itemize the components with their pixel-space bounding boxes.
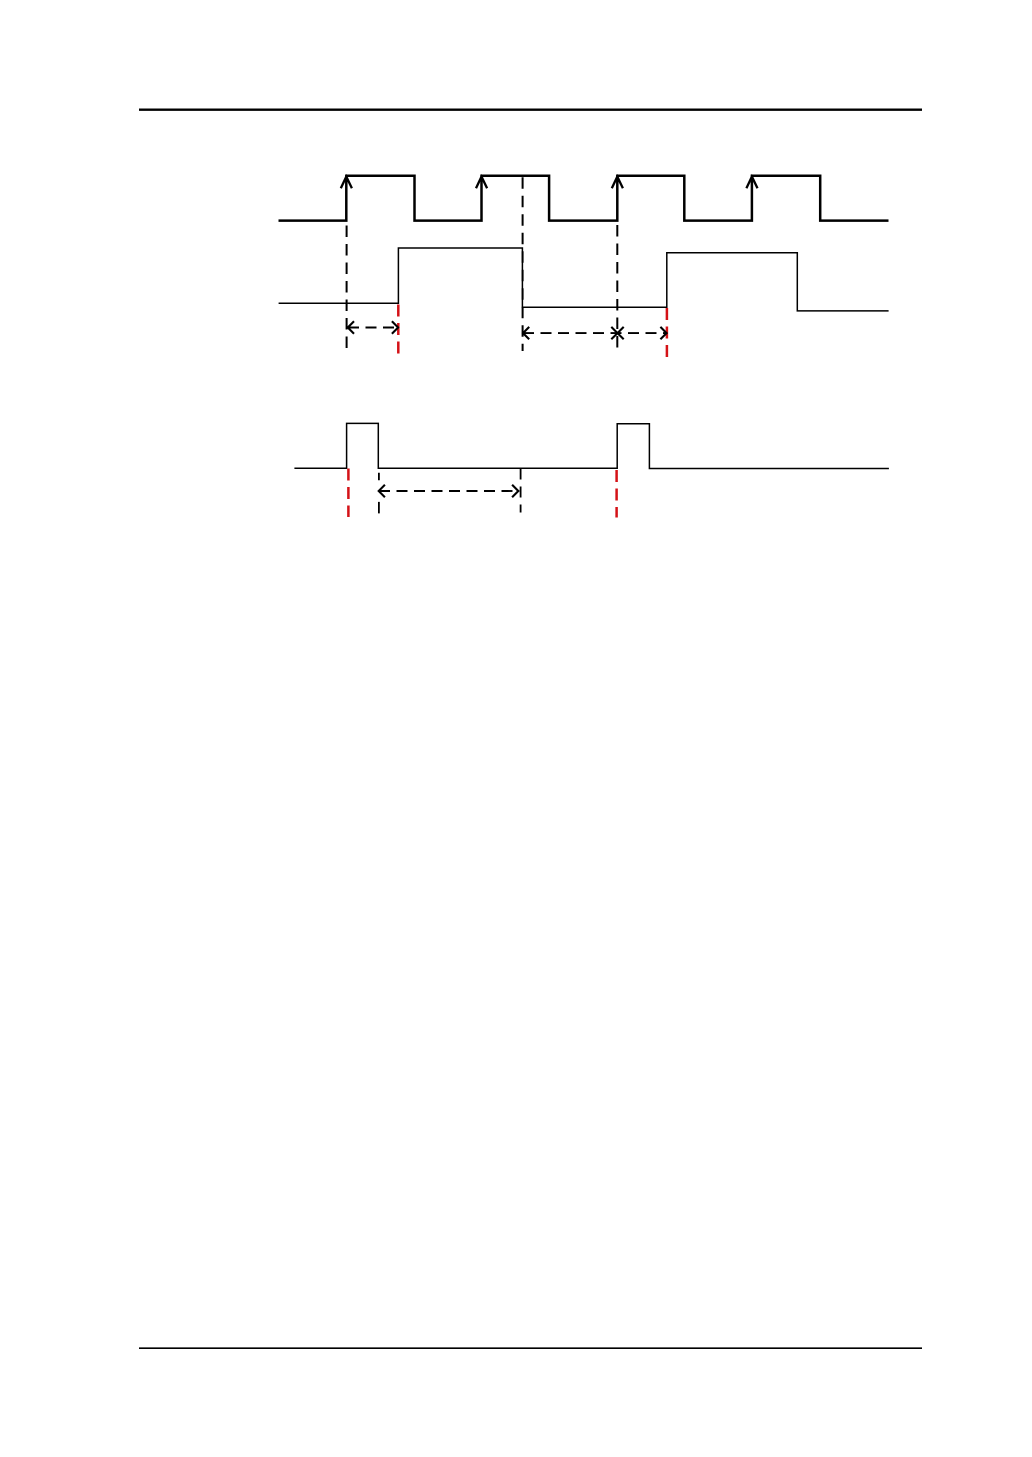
data waveform [279,248,889,311]
dimension arrow A dashed shaft [348,327,398,329]
dimension arrow C left head [618,327,624,339]
dimension arrow C right head [660,327,666,339]
red dashed vertical line at data rise 2 [666,308,669,357]
dashed tick at pulse 1 fall [378,473,380,514]
dimension arrow D left head [379,485,385,497]
top rule [139,108,922,110]
clock rising-edge arrowhead 2 [476,177,487,189]
dimension arrow A left head [348,321,354,333]
clock rising-edge arrowhead 3 [612,177,623,189]
dimension arrow B right head [611,327,617,339]
clock rising-edge arrowhead 4 [746,177,757,189]
clock waveform CLK [279,176,889,221]
clock rising-edge arrowhead 1 [341,177,352,189]
dimension arrow D right head [512,485,518,497]
red dashed vertical line at pulse 2 rise [615,470,618,518]
pulse waveform 3 [294,423,889,468]
dashed vertical line at data fall [522,177,524,351]
dimension arrow A right head [392,321,398,333]
bottom rule [139,1347,922,1349]
dashed vertical line at clock edge 3 [616,225,618,351]
dashed vertical line at clock edge 1 [346,226,348,353]
red dashed vertical line at pulse 1 rise [347,469,350,518]
dimension arrow B dashed shaft [523,332,667,334]
dashed tick at measure end [520,469,522,513]
dimension arrow B left head [523,327,529,339]
dimension arrow D dashed shaft [379,490,518,492]
red dashed vertical line at data rise 1 [397,305,400,354]
